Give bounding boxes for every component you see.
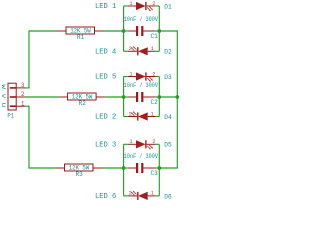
svg-text:2: 2	[129, 191, 132, 197]
wire R1 to group1 left node	[104, 30, 124, 32]
junction bus at group2	[175, 95, 179, 99]
pin number 1 of D2	[151, 46, 154, 52]
svg-text:C1: C1	[151, 33, 158, 40]
label D3	[164, 74, 171, 81]
svg-text:1: 1	[129, 1, 132, 7]
value 12K 5W of R3	[69, 165, 90, 172]
svg-text:10nF / 300V: 10nF / 300V	[124, 82, 159, 89]
wire P1 pin2 to R2 (net V)	[25, 96, 59, 98]
common return bus wire	[159, 31, 177, 168]
junction group 1 right	[157, 29, 161, 33]
junction group 2 right	[157, 95, 161, 99]
value 10nF / 300V of C1	[124, 16, 159, 23]
svg-text:D6: D6	[164, 193, 171, 200]
label R1	[77, 34, 84, 41]
svg-text:2: 2	[152, 139, 155, 145]
label LED 4	[95, 48, 116, 56]
label C3	[151, 170, 158, 177]
resistor R3 box 12K 5W	[56, 164, 103, 171]
pin number 1 of D4	[151, 111, 154, 117]
pin number 2 of D2	[129, 46, 132, 52]
pin lead 2 of P1	[16, 96, 25, 98]
label LED 3	[95, 141, 116, 149]
svg-text:C3: C3	[151, 170, 158, 177]
svg-text:D4: D4	[164, 114, 171, 121]
svg-text:LED 6: LED 6	[95, 193, 116, 201]
LED diode D4 (anode right, reversed)	[128, 111, 156, 120]
label R3	[76, 171, 83, 178]
svg-text:1: 1	[151, 191, 154, 197]
right parallel wire group 1	[156, 6, 160, 51]
svg-text:R3: R3	[76, 171, 83, 178]
svg-text:D5: D5	[164, 142, 171, 149]
label D1	[164, 3, 171, 10]
junction group 2 left	[122, 95, 126, 99]
connector P1 body	[8, 83, 16, 110]
label C2	[151, 99, 158, 106]
LED diode D1 (anode left)	[128, 2, 156, 11]
junction group 3 left	[122, 166, 126, 170]
pin number 1 of P1	[21, 100, 25, 107]
svg-text:2: 2	[152, 71, 155, 77]
left parallel wire group 2	[124, 77, 128, 117]
svg-text:3: 3	[21, 82, 25, 89]
pin lead 3 of P1	[16, 87, 25, 89]
svg-text:LED 4: LED 4	[95, 48, 116, 56]
right parallel wire group 2	[156, 77, 160, 117]
svg-text:1: 1	[151, 111, 154, 117]
left parallel wire group 3	[124, 144, 128, 196]
svg-text:D3: D3	[164, 74, 171, 81]
pin number 1 of D3	[129, 71, 132, 77]
svg-text:1: 1	[129, 139, 132, 145]
svg-text:D2: D2	[164, 49, 171, 56]
pin number 3 of P1	[21, 82, 25, 89]
pin number 2 of D6	[129, 191, 132, 197]
junction group 1 left	[122, 29, 126, 33]
pin names W V U of P1	[0, 84, 7, 108]
LED diode D5 (anode left)	[128, 140, 156, 149]
capacitor C1	[128, 26, 156, 36]
svg-text:R2: R2	[79, 100, 86, 107]
label D6	[164, 193, 171, 200]
wire R2 to group2 left node	[105, 96, 124, 98]
svg-text:P1: P1	[7, 113, 14, 120]
svg-text:10nF / 300V: 10nF / 300V	[124, 153, 159, 160]
label LED 5	[95, 74, 116, 82]
svg-text:LED 3: LED 3	[95, 141, 116, 149]
pin number 2 of P1	[21, 91, 25, 98]
svg-text:2: 2	[129, 111, 132, 117]
value 12K 5W of R2	[72, 94, 93, 101]
svg-text:1: 1	[129, 71, 132, 77]
svg-text:R1: R1	[77, 34, 84, 41]
pin number 1 of D6	[151, 191, 154, 197]
label C1	[151, 33, 158, 40]
label LED 2	[95, 114, 116, 122]
pin lead 1 of P1	[16, 105, 25, 107]
svg-text:10nF / 300V: 10nF / 300V	[124, 16, 159, 23]
resistor R2 box 12K 5W	[59, 93, 106, 100]
svg-text:LED 2: LED 2	[95, 114, 116, 122]
value 10nF / 300V of C3	[124, 153, 159, 160]
svg-text:2: 2	[152, 1, 155, 7]
label LED 1	[95, 3, 116, 11]
wire P1 pin1 to R3 (net U)	[25, 106, 56, 168]
svg-text:1: 1	[21, 100, 25, 107]
pin number 2 of D3	[152, 71, 155, 77]
pin number 2 of D1	[152, 1, 155, 7]
capacitor C2	[128, 92, 156, 102]
pin number 2 of D5	[152, 139, 155, 145]
svg-text:LED 1: LED 1	[95, 3, 116, 11]
svg-text:D1: D1	[164, 3, 171, 10]
right parallel wire group 3	[156, 144, 160, 196]
capacitor C3	[128, 163, 156, 173]
svg-text:LED 5: LED 5	[95, 74, 116, 82]
label P1	[7, 113, 14, 120]
label R2	[79, 100, 86, 107]
junction group 3 right	[157, 166, 161, 170]
svg-text:C2: C2	[151, 99, 158, 106]
pin number 2 of D4	[129, 111, 132, 117]
label D2	[164, 49, 171, 56]
label D5	[164, 142, 171, 149]
value 10nF / 300V of C2	[124, 82, 159, 89]
resistor R1 box 12K 5W	[57, 27, 104, 34]
value 12K 5W of R1	[70, 28, 91, 35]
label LED 6	[95, 193, 116, 201]
wire R3 to group3 left node	[102, 167, 124, 169]
svg-text:1: 1	[151, 46, 154, 52]
LED diode D2 (anode right, reversed)	[128, 46, 156, 55]
pin number 1 of D1	[129, 1, 132, 7]
svg-text:2: 2	[21, 91, 25, 98]
wire P1 pin3 to R1 (net W)	[25, 31, 57, 88]
LED diode D3 (anode left)	[128, 72, 156, 81]
LED diode D6 (anode right, reversed)	[128, 191, 156, 200]
pin number 1 of D5	[129, 139, 132, 145]
left parallel wire group 1	[124, 6, 128, 51]
label D4	[164, 114, 171, 121]
svg-text:2: 2	[129, 46, 132, 52]
svg-text:W V U: W V U	[0, 84, 7, 108]
